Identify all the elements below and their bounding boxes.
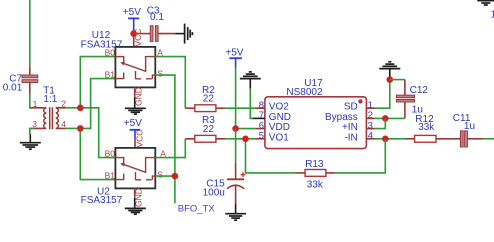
svg-text:BFO_TX: BFO_TX xyxy=(178,203,216,214)
svg-text:-IN: -IN xyxy=(344,132,357,143)
svg-text:2: 2 xyxy=(61,99,66,109)
svg-text:4: 4 xyxy=(61,119,66,129)
svg-text:0.1: 0.1 xyxy=(150,12,164,23)
svg-text:22: 22 xyxy=(203,124,215,135)
wire +5V to U2 VCC xyxy=(134,140,136,148)
capacitor C15 polarized xyxy=(203,163,246,204)
wire node T1.2 up to U12 B0 xyxy=(80,57,115,108)
wire R2 to U17 pin8 xyxy=(226,107,255,109)
svg-text:22: 22 xyxy=(203,93,215,104)
wire node to C12 top xyxy=(390,79,405,81)
power +5V center for U17 VDD xyxy=(225,47,243,67)
wire +5V down to U17 VDD node xyxy=(235,68,237,129)
wire ground to U17 pin7 xyxy=(250,89,252,119)
transformer T1 xyxy=(31,86,67,130)
svg-text:33k: 33k xyxy=(418,122,435,133)
svg-text:0.01: 0.01 xyxy=(3,83,23,94)
ground under C15 xyxy=(225,204,246,221)
wire U2 A up to R3 xyxy=(155,139,185,158)
svg-text:S: S xyxy=(157,169,163,179)
wire T1 pin3 to ground xyxy=(30,128,34,134)
wire VDD node down to C15 xyxy=(235,129,237,163)
power +5V for U12 xyxy=(123,7,141,31)
wire +5V to U12 VCC xyxy=(133,31,135,47)
U2 internal switch symbol xyxy=(115,158,123,165)
wire T1 pin2 to node xyxy=(66,107,81,109)
junction U12 VCC node xyxy=(130,30,137,37)
svg-text:NS8002: NS8002 xyxy=(286,87,323,98)
svg-text:1: 1 xyxy=(491,9,494,20)
wire U2 S to select net xyxy=(155,175,175,177)
power +5V for U2 xyxy=(124,118,142,140)
wire U12 S down (select net) xyxy=(155,75,175,203)
ground under U12 xyxy=(125,97,146,114)
svg-text:VCC: VCC xyxy=(133,29,143,47)
wire T1 pin4 to node xyxy=(66,127,81,129)
resistor R2 xyxy=(185,85,225,112)
wire R13 to pin5 node xyxy=(246,139,296,173)
wire pin2 node down to pin3 xyxy=(375,118,386,128)
svg-text:B1: B1 xyxy=(105,69,116,79)
svg-text:R13: R13 xyxy=(305,159,324,170)
svg-text:1u: 1u xyxy=(464,121,475,132)
ground under U2 xyxy=(125,198,146,214)
wire pin4 node down to R13 xyxy=(335,139,385,173)
junction pin4 node xyxy=(382,136,389,143)
U17 pin stubs xyxy=(255,107,265,109)
svg-text:33k: 33k xyxy=(307,180,324,191)
svg-text:4: 4 xyxy=(368,131,373,142)
wire U17 pin1 up to ground node xyxy=(375,80,390,109)
svg-text:1:1: 1:1 xyxy=(43,94,57,105)
wire R3 to U17 pin5 xyxy=(226,138,255,140)
wire U17 pin4 to R12 xyxy=(375,138,405,140)
svg-text:+5V: +5V xyxy=(124,118,142,129)
wire node T1.4 to U12 B1 xyxy=(80,79,115,129)
svg-text:100u: 100u xyxy=(203,188,225,199)
wire top-left vertical into C7 xyxy=(29,0,31,66)
wire node T1.2 right and down to U2 B0 xyxy=(80,108,115,158)
ground top right corner xyxy=(477,1,494,5)
svg-text:B1: B1 xyxy=(105,170,116,180)
resistor R3 xyxy=(185,115,225,142)
wire C11 out right xyxy=(483,138,494,140)
wire C12 bottom to pin2 node xyxy=(385,117,405,119)
svg-text:S: S xyxy=(157,68,163,78)
U17 SD inversion dot xyxy=(358,99,362,103)
svg-text:VCC: VCC xyxy=(135,130,145,148)
svg-text:+5V: +5V xyxy=(225,47,243,58)
capacitor C7 xyxy=(3,66,38,93)
resistor R12 xyxy=(405,114,461,142)
ground at T1 pin3 xyxy=(20,134,41,149)
analog switch U2 FSA3157 xyxy=(81,130,167,207)
wire node T1.4 down to U2 B1 xyxy=(80,128,115,179)
capacitor C3 xyxy=(137,5,176,41)
U12 GND pin to ground xyxy=(134,87,136,97)
svg-text:C12: C12 xyxy=(410,85,429,96)
svg-text:FSA3157: FSA3157 xyxy=(81,195,123,206)
U12 internal switch symbol xyxy=(115,57,123,64)
junction pin2 node xyxy=(382,115,389,122)
inverted ground above pin1 node xyxy=(379,62,400,77)
junction VDD node xyxy=(232,125,239,132)
wire pin2 node to U17 pin2 xyxy=(375,117,386,119)
svg-text:B0: B0 xyxy=(105,148,116,158)
ground at C3 (rotated right) xyxy=(176,24,193,44)
svg-text:FSA3157: FSA3157 xyxy=(81,40,123,51)
analog switch U12 FSA3157 xyxy=(81,29,164,106)
svg-text:5: 5 xyxy=(259,131,264,142)
junction pin5 node xyxy=(242,136,249,143)
ground above U17 pin7 xyxy=(240,72,261,89)
resistor R13 xyxy=(296,159,336,190)
svg-text:B0: B0 xyxy=(105,47,116,57)
wire VDD node to U17 pin6 xyxy=(236,128,256,130)
wire C7 to T1 pin1 xyxy=(30,94,31,108)
op-amp U17 NS8002 xyxy=(255,78,374,148)
svg-text:VO1: VO1 xyxy=(269,132,289,143)
capacitor C12 xyxy=(396,80,428,119)
junction select node xyxy=(172,173,179,180)
svg-text:+5V: +5V xyxy=(123,7,141,18)
U2 GND pin to ground xyxy=(134,188,136,197)
capacitor C11 xyxy=(453,113,483,147)
junction pin1/C12 node xyxy=(387,76,394,83)
junction node T1.4 xyxy=(77,125,84,132)
wire U12 A to R2 xyxy=(155,57,185,109)
svg-text:1: 1 xyxy=(33,99,38,109)
junction node T1.2 xyxy=(77,105,84,112)
